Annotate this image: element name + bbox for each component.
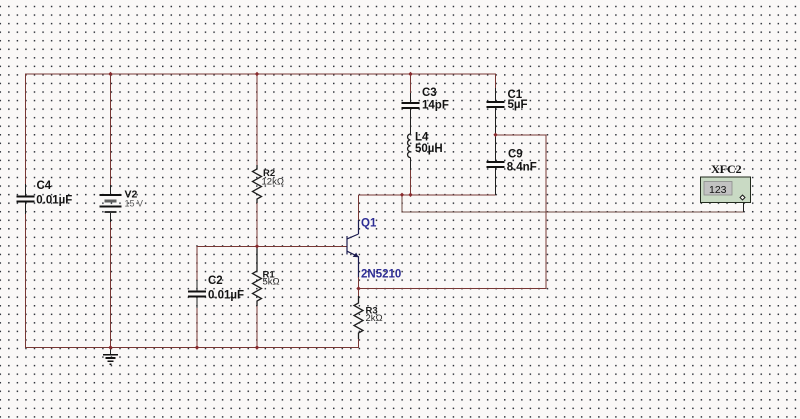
svg-text:L4: L4 <box>415 132 429 144</box>
svg-text:0.01µF: 0.01µF <box>36 195 72 207</box>
node dot ground rail R1 <box>255 345 259 349</box>
node dot C1-C9 junction <box>493 133 497 137</box>
capacitor C9 <box>487 149 537 195</box>
resistor R2 <box>253 165 284 203</box>
node dot base R1 junction <box>255 244 259 248</box>
svg-text:2kΩ: 2kΩ <box>366 313 383 324</box>
wire C1 bottom to C9 node <box>495 112 497 162</box>
ground <box>103 347 118 364</box>
svg-text:Q1: Q1 <box>361 218 377 230</box>
svg-text:14pF: 14pF <box>422 100 449 112</box>
svg-text:5kΩ: 5kΩ <box>263 277 280 288</box>
resistor R3 <box>354 296 383 339</box>
node dot ground rail V2 <box>108 345 112 349</box>
battery V2 <box>100 185 144 222</box>
svg-text:2N5210: 2N5210 <box>361 269 401 281</box>
svg-text:50µH: 50µH <box>415 143 443 155</box>
node dot ground rail C2 <box>195 345 199 349</box>
svg-text:C4: C4 <box>37 180 52 192</box>
terminal XFC2 pin <box>740 195 745 200</box>
instrument XFC2 <box>701 162 751 203</box>
wire emitter net to right riser <box>359 135 547 289</box>
svg-text:0.01µF: 0.01µF <box>208 290 244 302</box>
transistor Q1 <box>347 218 401 281</box>
svg-text:123: 123 <box>709 184 727 196</box>
svg-text:5µF: 5µF <box>508 99 528 111</box>
inductor L4 <box>408 113 443 170</box>
wire instrument net <box>402 195 744 212</box>
svg-text:C2: C2 <box>208 275 223 287</box>
capacitor C4 <box>17 180 73 214</box>
wire bottom ground rail <box>26 336 359 348</box>
wire C3 branch <box>410 74 412 195</box>
svg-text:8.4nF: 8.4nF <box>507 162 537 174</box>
wire Q1 collector up <box>358 195 360 220</box>
wire base net (C2 top to Q1 base) <box>197 246 347 282</box>
capacitor C1 <box>487 88 528 114</box>
node dot top V2 <box>108 72 112 76</box>
svg-text:15 V: 15 V <box>125 199 144 209</box>
node dot top C3 <box>408 72 412 76</box>
svg-text:C3: C3 <box>422 87 437 99</box>
wire collector net horizontal <box>359 194 496 196</box>
node dot collector net L4 <box>408 193 412 197</box>
wire R2 branch <box>256 74 258 348</box>
wire V2 branch <box>110 74 112 348</box>
capacitor C3 <box>402 87 449 114</box>
node dot emitter junction <box>356 286 360 290</box>
wire Q1 emitter down <box>358 277 360 289</box>
resistor R1 <box>253 246 280 306</box>
svg-text:C9: C9 <box>508 149 523 161</box>
wire C2 bottom <box>196 306 198 348</box>
node dot top R2 <box>255 72 259 76</box>
node dot collector net XFC branch <box>400 193 404 197</box>
svg-text:XFC2: XFC2 <box>711 162 742 176</box>
wire R3 branch <box>358 289 360 298</box>
wire left branch bottom (C4 to ground rail) <box>25 210 27 348</box>
svg-text:12kΩ: 12kΩ <box>262 177 284 188</box>
capacitor C2 <box>188 275 244 308</box>
wire top rail <box>26 74 496 188</box>
